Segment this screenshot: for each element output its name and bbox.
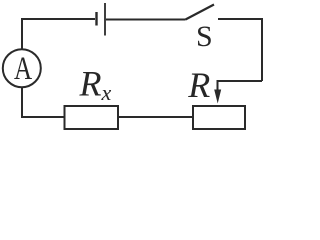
- svg-text:S: S: [196, 20, 213, 53]
- wire ammeter to bottom-left corner and to Rx: [22, 88, 64, 118]
- wire Rx to R: [119, 116, 192, 118]
- rheostat slider arrowhead: [214, 90, 221, 104]
- resistor Rx box: [65, 106, 119, 129]
- battery long plate (positive): [104, 3, 106, 36]
- wire elbow to rheostat slider: [218, 81, 263, 92]
- wire switch to top-right corner and down right side: [218, 19, 262, 81]
- svg-text:x: x: [101, 80, 112, 105]
- ammeter A: [3, 49, 41, 87]
- wire top-left (left vertical + horizontal to battery): [22, 19, 95, 49]
- svg-text:R: R: [79, 64, 102, 104]
- svg-text:R: R: [187, 65, 210, 105]
- battery short plate (negative): [95, 12, 97, 26]
- switch S blade: [186, 5, 215, 20]
- svg-text:A: A: [14, 51, 32, 87]
- wire battery to switch: [106, 19, 186, 21]
- rheostat R box: [193, 106, 245, 129]
